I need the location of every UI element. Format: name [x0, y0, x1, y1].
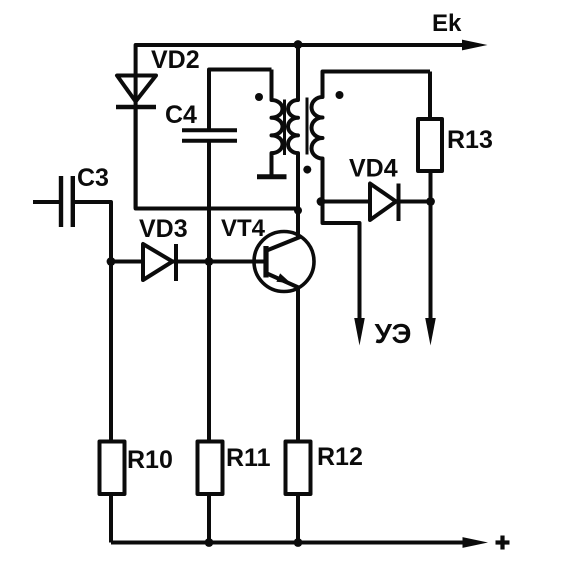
capacitor C4	[182, 130, 237, 141]
svg-text:R13: R13	[447, 126, 493, 154]
svg-text:C3: C3	[77, 164, 109, 192]
node: R12 bottom rail dot	[294, 538, 303, 547]
node: winding B phase dot	[303, 166, 311, 174]
resistor R10	[100, 442, 125, 495]
wire: VD3 cathode to base node	[173, 260, 210, 264]
svg-text:R12: R12	[317, 443, 363, 471]
svg-text:R10: R10	[127, 446, 173, 474]
label +	[496, 536, 510, 550]
wire: VD4 cathode wire	[396, 200, 431, 204]
transformer core	[283, 100, 286, 156]
node: winding A phase dot	[255, 93, 263, 101]
arrowhead Ek rail	[462, 40, 488, 51]
svg-text:УЭ: УЭ	[375, 318, 412, 349]
resistor R11	[198, 442, 223, 495]
node: collector T junction dot	[294, 207, 302, 215]
node: R11 bottom rail dot	[205, 538, 214, 547]
transformer winding A (feedback)	[272, 70, 283, 175]
arrowhead bottom rail	[463, 537, 489, 548]
wire: R11 lead down from node	[207, 262, 211, 442]
wire: VD4 anode wire	[321, 200, 370, 204]
wire: R10 bottom lead	[109, 494, 113, 543]
transformer winding B (collector)	[288, 45, 298, 209]
diode VD3	[143, 244, 176, 281]
node: winding C phase dot	[336, 91, 344, 99]
node: C3/R10 to VD3 junction dot	[107, 257, 116, 266]
svg-text:VD3: VD3	[139, 215, 188, 243]
wire: C4 bottom lead down through box line to VD3 node	[207, 141, 211, 262]
wire: C4 top lead to winding A	[209, 70, 272, 131]
svg-text:VD4: VD4	[349, 155, 398, 183]
capacitor C3	[61, 176, 73, 227]
transformer winding C (output)	[312, 72, 431, 202]
ground	[257, 174, 287, 179]
wire: УЭ left branch jog from VD4 anode	[323, 202, 360, 321]
wire: C3 left stub	[33, 200, 61, 204]
wire: R12 bottom lead	[296, 494, 300, 543]
wire: R10 top lead	[109, 262, 113, 442]
wire: R11 bottom lead	[207, 494, 211, 543]
wire: box bottom line (VD2 to collector node)	[136, 107, 298, 209]
resistor R12	[286, 442, 311, 495]
arrowhead УЭ left	[354, 318, 365, 346]
wire: bottom common rail	[111, 541, 466, 545]
wire: C3 right lead, corner down to VD3 node	[73, 202, 111, 262]
node: VD4 cathode / R13 junction dot	[426, 197, 435, 206]
arrowhead УЭ right	[425, 318, 436, 346]
wire: emitter lead down to R12	[296, 287, 300, 442]
wire: top Ek supply rail	[136, 45, 466, 209]
svg-text:Ek: Ek	[432, 10, 462, 37]
diode VD2	[116, 76, 156, 108]
wire: base wire to VT4	[209, 260, 264, 264]
wire: R13 top lead	[428, 72, 432, 120]
transistor VT4	[254, 232, 314, 292]
diode VD4	[370, 184, 399, 222]
resistor R13	[418, 119, 442, 171]
svg-text:R11: R11	[226, 444, 271, 472]
svg-text:C4: C4	[165, 101, 197, 129]
svg-text:VT4: VT4	[221, 215, 266, 242]
wire: R13 bottom lead / УЭ right branch	[429, 171, 433, 320]
node: winding C / VD4 anode junction dot	[317, 197, 326, 206]
wire: VD3 anode wire	[111, 260, 143, 264]
svg-text:VD2: VD2	[151, 46, 200, 74]
wire: collector lead	[296, 209, 300, 239]
node: VD3/C4/R11 junction dot	[205, 257, 214, 266]
node: rail to winding junction dot	[294, 40, 303, 49]
